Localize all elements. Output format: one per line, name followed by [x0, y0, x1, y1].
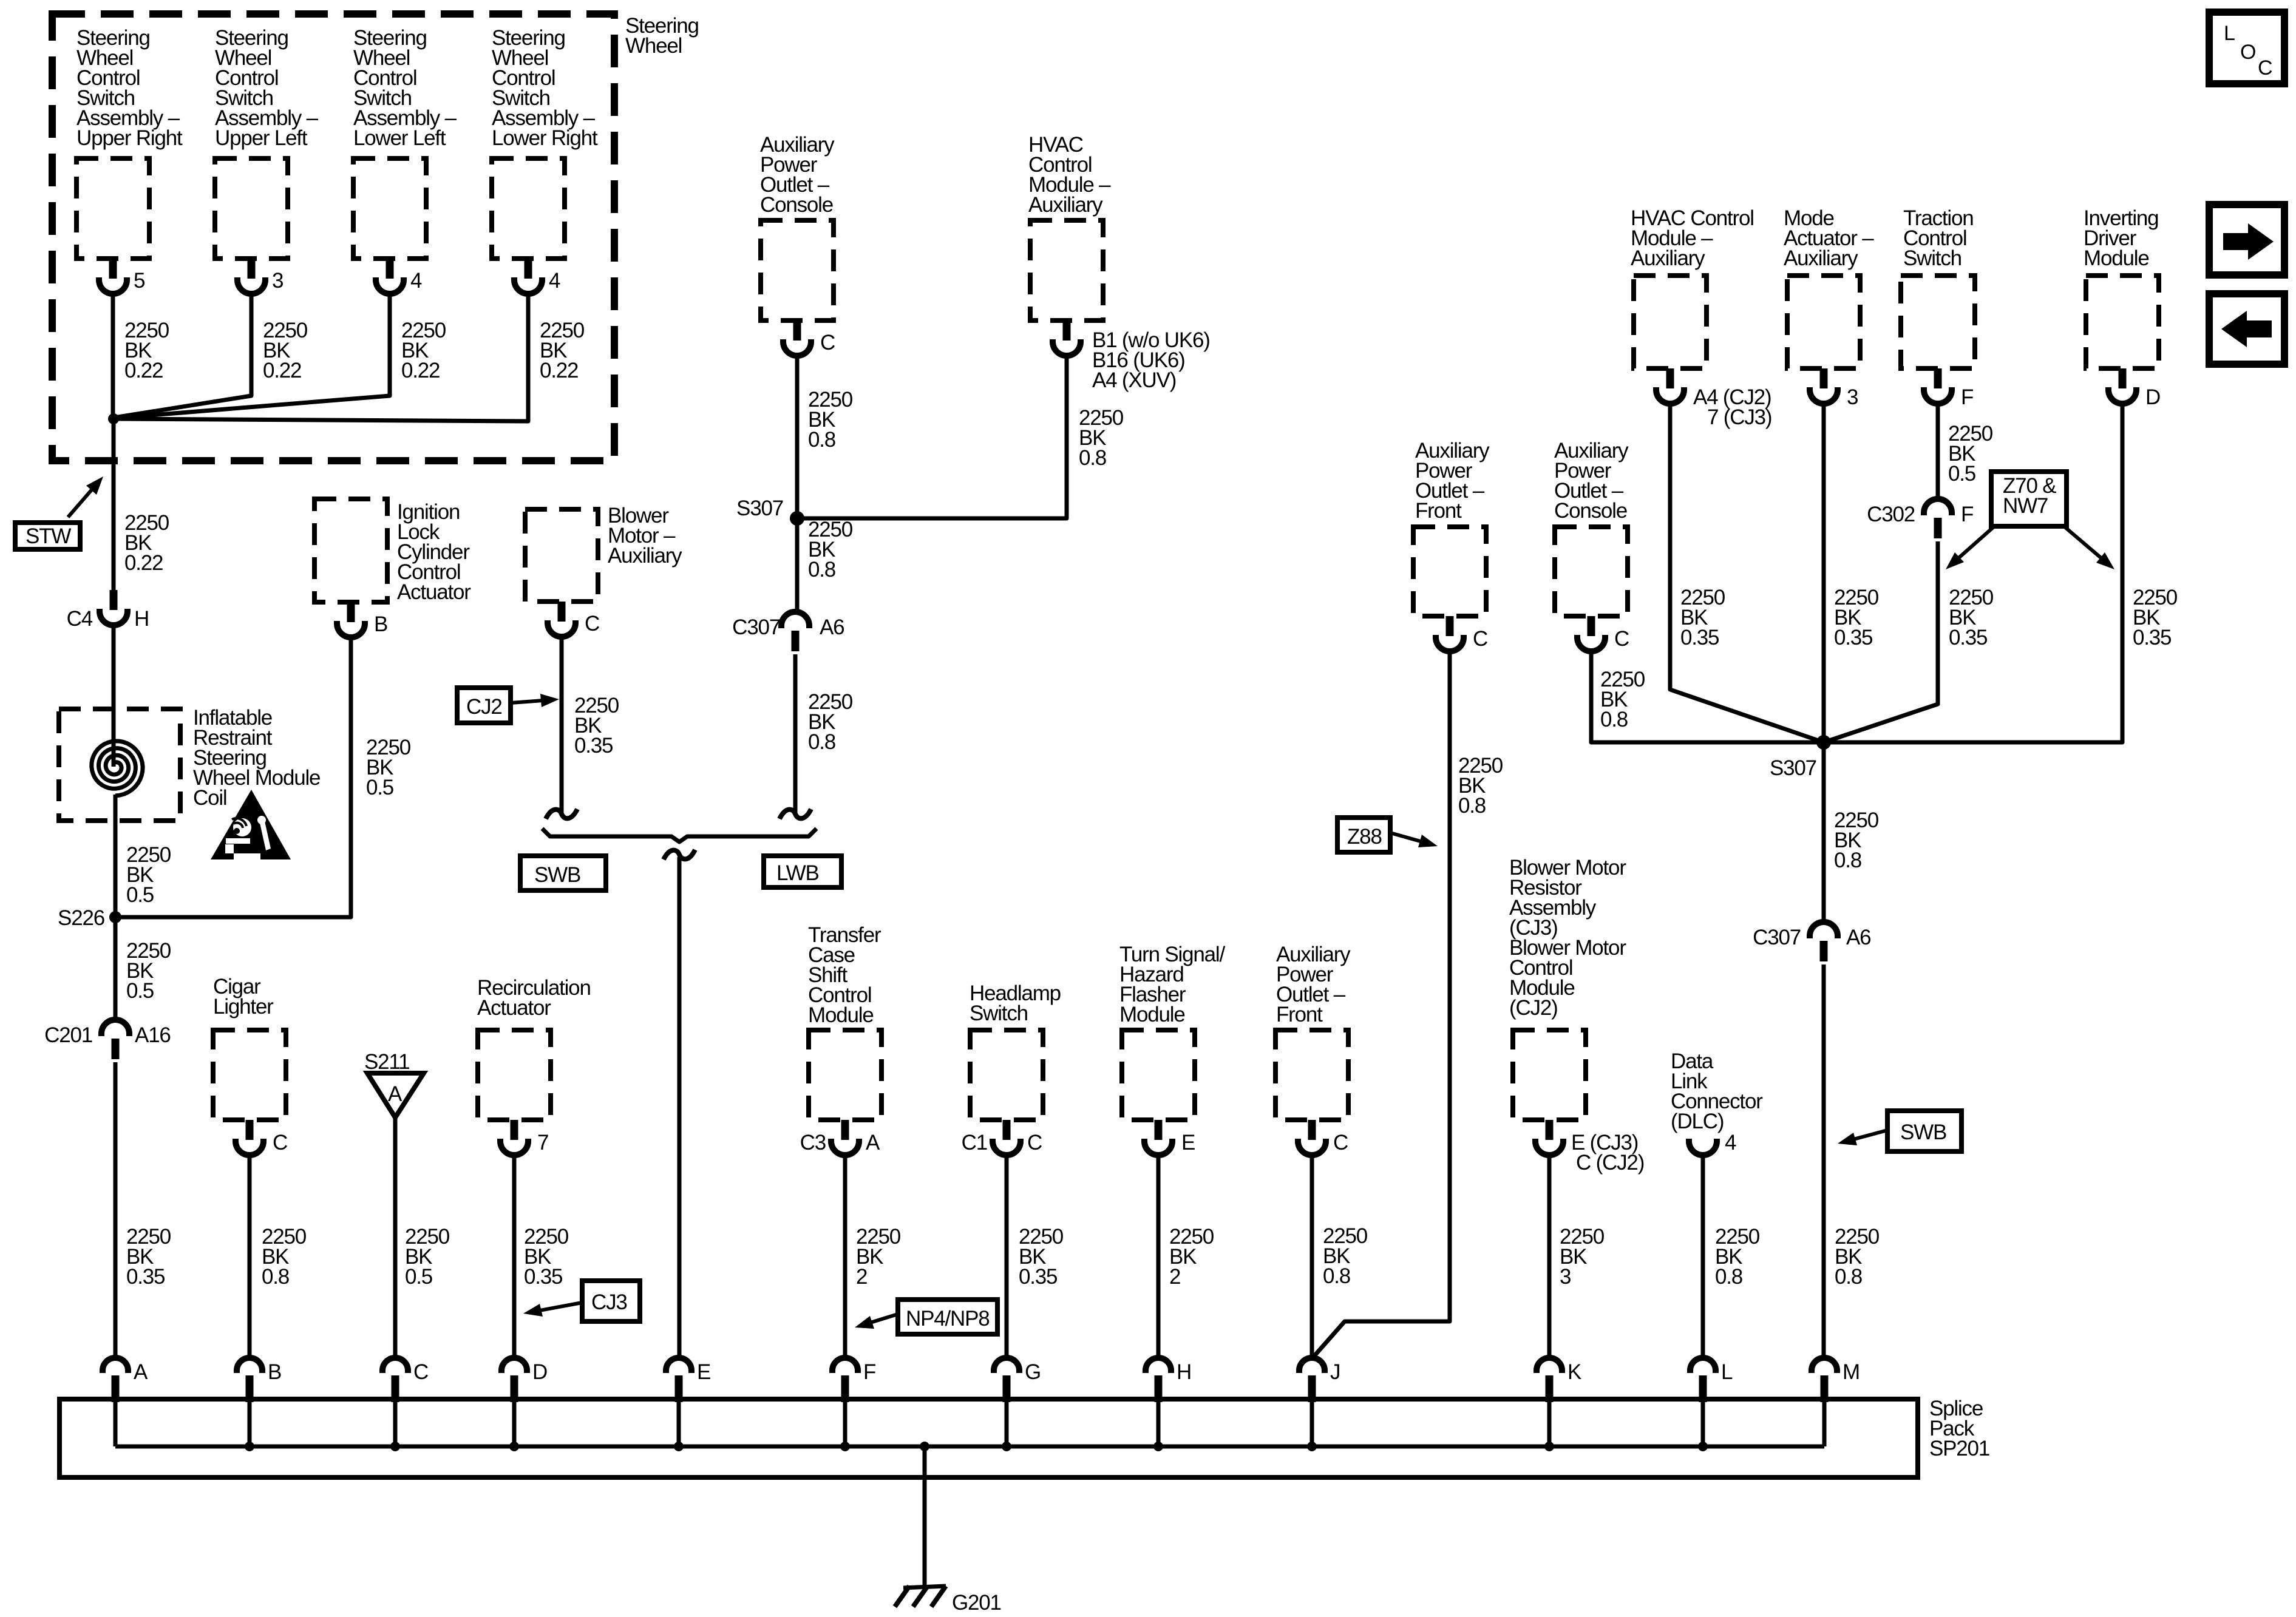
svg-text:AuxiliaryPowerOutlet –Console: AuxiliaryPowerOutlet –Console [1554, 439, 1629, 523]
connector pin 4 of switch assembly 4 [525, 259, 532, 279]
auxiliary power outlet console upper (dashed box) [1555, 527, 1628, 616]
connector pin F of traction control switch [1934, 368, 1942, 388]
SIR caution triangle [211, 790, 291, 859]
svg-text:A6: A6 [1846, 926, 1870, 949]
connector pin D of inverting driver module [2119, 368, 2127, 388]
arrow CJ2 to wire [511, 700, 548, 703]
svg-text:LWB: LWB [776, 861, 819, 885]
svg-text:4: 4 [1725, 1131, 1736, 1154]
wire blower motor to SWB bracket [560, 636, 564, 814]
svg-text:C302: C302 [1867, 503, 1915, 526]
svg-text:F: F [863, 1360, 875, 1384]
splice pack pin J [1299, 1358, 1325, 1373]
svg-text:O: O [2240, 41, 2255, 64]
tag SWB [520, 856, 606, 890]
wire mode actuator to S307 [1822, 402, 1826, 742]
wire DLC to pin L [1701, 1154, 1705, 1358]
svg-text:C307: C307 [1753, 926, 1801, 949]
bus junction at pin H [1153, 1442, 1163, 1451]
svg-text:C: C [1473, 627, 1487, 651]
svg-text:F: F [1961, 385, 1973, 409]
wire-break hook harness center [664, 850, 695, 859]
traction control switch (dashed box) [1901, 276, 1975, 368]
splice S307 (left) [790, 511, 804, 526]
connector pin 4 of DLC [1689, 1139, 1717, 1155]
splice pack pin M [1812, 1358, 1837, 1373]
bus junction at pin E [674, 1442, 684, 1451]
wire switch 1 to junction [111, 293, 115, 419]
splice pack pin G [994, 1358, 1019, 1373]
splice pack bus [115, 1445, 1824, 1449]
wire aux console mid to S307 [795, 354, 800, 518]
wire recirculation to pin D [512, 1154, 517, 1358]
tag Z70 & NW7 [1991, 472, 2067, 526]
blower motor auxiliary (dashed box) [525, 509, 598, 602]
wire-break hook SWB side [546, 809, 577, 819]
splice pack pin L [1690, 1358, 1716, 1373]
svg-text:5: 5 [134, 269, 144, 293]
arrow SWB to wire [1848, 1130, 1887, 1141]
arrow NP4/NP8 to wire [865, 1314, 898, 1324]
hvac control module auxiliary mid (dashed box) [1030, 220, 1103, 320]
wire cigar lighter to pin B [248, 1154, 252, 1358]
svg-text:B: B [268, 1360, 281, 1384]
arrow CJ3 to wire [534, 1303, 582, 1312]
tag Z88 [1337, 818, 1390, 852]
bus junction at pin G [1002, 1442, 1011, 1451]
svg-text:A16: A16 [135, 1023, 171, 1047]
wire hvac right to S307 [1670, 402, 1824, 742]
hvac control module auxiliary right (dashed box) [1634, 276, 1707, 368]
wire transfer case to pin F [843, 1154, 847, 1358]
auxiliary power outlet front lower (dashed box) [1275, 1030, 1348, 1120]
connector C307 pin A6 (left) [781, 612, 809, 628]
connector pin C of cigar lighter [246, 1120, 254, 1140]
connector pin C of aux outlet console mid [793, 320, 801, 341]
tag STW [15, 523, 80, 549]
left-arrow legend box [2209, 294, 2284, 364]
wire C201 to pin A [114, 1062, 118, 1358]
connector C201 pin A16 [101, 1020, 129, 1036]
steering wheel control switch assembly 4 (dashed box) [492, 158, 565, 259]
wire headlamp to pin G [1005, 1154, 1009, 1358]
inverting driver module (dashed box) [2086, 276, 2159, 368]
svg-text:E: E [1181, 1131, 1195, 1154]
svg-text:C: C [273, 1131, 287, 1154]
tag LWB [764, 856, 841, 887]
bus junction at pin C [390, 1442, 400, 1451]
svg-text:NP4/NP8: NP4/NP8 [906, 1307, 990, 1331]
bus junction at pin B [245, 1442, 254, 1451]
bus junction at pin F [840, 1442, 850, 1451]
connector pin C of aux outlet front lower [1308, 1120, 1316, 1140]
splice pack pin F [832, 1358, 858, 1373]
tag SWB (right) [1887, 1111, 1961, 1151]
svg-text:C: C [413, 1360, 428, 1384]
splice pack pin A [103, 1358, 128, 1373]
svg-text:B: B [374, 612, 387, 636]
steering wheel control switch assembly 3 (dashed box) [353, 158, 426, 259]
svg-text:K: K [1567, 1360, 1581, 1384]
svg-text:C3: C3 [800, 1131, 826, 1154]
connector pins A4(CJ2)/7(CJ3) of hvac right [1666, 368, 1674, 388]
blower motor resistor assembly (dashed box) [1513, 1030, 1586, 1120]
svg-text:4: 4 [549, 269, 560, 293]
auxiliary power outlet console mid (dashed box) [761, 220, 834, 320]
wire S226 branch to ignition lock [115, 636, 351, 917]
svg-text:C (CJ2): C (CJ2) [1576, 1151, 1644, 1175]
steering wheel control switch assembly 2 (dashed box) [215, 158, 288, 259]
connector pin C of aux outlet console upper [1588, 616, 1595, 636]
svg-text:D: D [2145, 385, 2160, 409]
connector pin E of flasher module [1155, 1120, 1163, 1140]
bus junction for ground [920, 1442, 929, 1451]
wire C307 to pin M [1822, 964, 1826, 1358]
harness bracket [542, 829, 817, 842]
wire-break hook LWB side [779, 809, 811, 819]
splice pack pin D [501, 1358, 527, 1373]
splice pack pin C [382, 1358, 408, 1373]
ignition lock cylinder control actuator (dashed box) [314, 499, 387, 602]
wire bracket to pin E [678, 857, 682, 1358]
arrow Z70/NW7 left [1954, 527, 1993, 562]
wire S226 to C201 [114, 917, 118, 1021]
arrow Z70/NW7 right [2065, 527, 2106, 562]
splice pack pin H [1146, 1358, 1171, 1373]
wire C4 to coil [112, 624, 116, 767]
svg-text:G201: G201 [952, 1591, 1001, 1615]
svg-text:D: D [532, 1360, 547, 1384]
connector pins E(CJ3)/C(CJ2) of blower resistor [1546, 1120, 1554, 1140]
arrow STW to wire [68, 485, 96, 517]
inflatable restraint coil (dashed box) [59, 709, 180, 821]
svg-text:4: 4 [410, 269, 422, 293]
bus junction at pin D [509, 1442, 519, 1451]
LOC legend box [2209, 12, 2284, 84]
svg-text:E: E [697, 1360, 710, 1384]
svg-text:S307: S307 [1770, 756, 1816, 780]
tag CJ3 [582, 1281, 640, 1321]
svg-text:H: H [134, 607, 149, 631]
cigar lighter (dashed box) [213, 1030, 286, 1120]
wire S307 to C307 (right) [1822, 742, 1826, 923]
svg-text:L: L [2224, 22, 2235, 45]
turn signal hazard flasher module (dashed box) [1122, 1030, 1195, 1120]
transfer case shift control module (dashed box) [809, 1030, 881, 1120]
svg-text:S307: S307 [736, 497, 783, 520]
svg-text:A: A [866, 1131, 880, 1154]
svg-text:CJ2: CJ2 [466, 695, 502, 719]
svg-text:SWB: SWB [534, 863, 580, 887]
headlamp switch (dashed box) [970, 1030, 1043, 1120]
svg-text:C307: C307 [732, 615, 780, 639]
svg-text:AuxiliaryPowerOutlet –Console: AuxiliaryPowerOutlet –Console [760, 133, 835, 217]
svg-text:C4: C4 [67, 607, 93, 631]
tag NP4/NP8 [898, 1300, 997, 1334]
svg-text:G: G [1025, 1360, 1041, 1384]
svg-text:A: A [388, 1082, 402, 1106]
connector pin B of ignition lock [347, 602, 355, 622]
arrow Z88 to wire [1390, 833, 1427, 843]
svg-text:C: C [1333, 1131, 1348, 1154]
wire traction to C302 [1936, 402, 1940, 501]
splice S307 (right) [1816, 735, 1831, 750]
connector C4 pin H [110, 590, 118, 610]
svg-text:3: 3 [272, 269, 283, 293]
wire aux front lower to pin J [1310, 1154, 1314, 1358]
wire S307 to C307 (left) [795, 518, 800, 613]
splice pack pin B [237, 1358, 262, 1373]
connector C302 pin F [1924, 499, 1952, 515]
wire bus to G201 [923, 1446, 927, 1587]
wire inverting driver to S307 [1824, 402, 2122, 742]
auxiliary power outlet front upper (dashed box) [1413, 527, 1486, 616]
coil spiral [92, 741, 143, 796]
connector pin 3 of mode actuator [1820, 368, 1828, 388]
connector pin 4 of switch assembly 3 [386, 259, 394, 279]
splice pack SP201 box [59, 1399, 1918, 1477]
connector pin 3 of switch assembly 2 [248, 259, 256, 279]
connector pin C of blower motor [558, 602, 566, 622]
svg-text:C: C [2258, 56, 2272, 80]
svg-text:C: C [585, 612, 599, 636]
steering wheel boundary (dashed) [52, 14, 614, 461]
connector C307 pin A6 (right) [1810, 922, 1838, 938]
splice pack pin K [1537, 1358, 1562, 1373]
svg-text:7: 7 [537, 1131, 548, 1154]
bus junction at pin K [1544, 1442, 1554, 1451]
svg-text:Z88: Z88 [1347, 825, 1382, 849]
connector pin C of aux outlet front upper [1446, 616, 1454, 636]
mode actuator auxiliary (dashed box) [1787, 276, 1860, 368]
wire S211 to pin C [393, 1117, 398, 1358]
wire coil to S226 [114, 795, 118, 917]
connector C3 pin A of transfer case [841, 1120, 849, 1140]
svg-text:SWB: SWB [1900, 1120, 1946, 1144]
wire flasher module to pin H [1156, 1154, 1161, 1358]
junction of switch wires [108, 413, 119, 424]
svg-text:C: C [1027, 1131, 1042, 1154]
connector C1 pin C of headlamp switch [1003, 1120, 1011, 1140]
svg-text:H: H [1177, 1360, 1191, 1384]
svg-text:7 (CJ3): 7 (CJ3) [1707, 405, 1771, 429]
svg-text:C: C [1614, 627, 1629, 651]
left-arrow glyph [2221, 311, 2272, 347]
bus junction at pin L [1698, 1442, 1708, 1451]
svg-text:STW: STW [25, 524, 71, 548]
svg-text:A: A [134, 1360, 148, 1384]
wire C302 to S307 [1824, 541, 1938, 742]
svg-text:C201: C201 [44, 1023, 92, 1047]
connector pin 5 of switch assembly 1 [109, 259, 117, 279]
svg-text:CJ3: CJ3 [591, 1290, 627, 1314]
wire junction to C4 [112, 419, 116, 590]
wire blower resistor to pin K [1547, 1154, 1552, 1358]
bus junction at pin J [1307, 1442, 1317, 1451]
svg-text:L: L [1721, 1360, 1733, 1384]
svg-text:C: C [820, 331, 835, 354]
splice S226 [109, 911, 121, 923]
ground G201 [903, 1586, 946, 1588]
svg-text:3: 3 [1847, 385, 1858, 409]
connector pin 7 of recirculation actuator [511, 1120, 518, 1140]
right-arrow legend box [2209, 205, 2284, 275]
wire aux console upper to S307 [1591, 650, 1824, 742]
wire hvac mid to S307 [797, 354, 1067, 518]
wire switch 4 to junction [115, 293, 528, 421]
steering wheel control switch assembly 1 (dashed box) [76, 158, 149, 259]
svg-text:J: J [1330, 1360, 1340, 1384]
svg-text:A6: A6 [820, 615, 844, 639]
wire switch 3 to junction [114, 293, 390, 418]
svg-text:C1: C1 [962, 1131, 987, 1154]
svg-text:S211: S211 [364, 1050, 409, 1074]
right-arrow glyph [2223, 223, 2274, 260]
wire C307 to LWB bracket [793, 654, 798, 814]
svg-text:M: M [1843, 1360, 1860, 1384]
tag CJ2 [457, 688, 511, 723]
connector pins B1/B16/A4 of hvac mid [1063, 320, 1071, 341]
svg-text:S226: S226 [58, 906, 104, 930]
wire switch 2 to junction [114, 293, 251, 418]
recirculation actuator (dashed box) [478, 1030, 551, 1120]
splice pack pin E [666, 1358, 691, 1373]
svg-text:F: F [1961, 503, 1973, 526]
wire aux front upper to pin J jog [1313, 650, 1450, 1357]
